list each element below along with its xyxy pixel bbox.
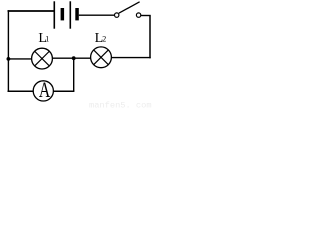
svg-text:manfen5. com: manfen5. com bbox=[89, 100, 152, 110]
switch S1 lever (open) bbox=[119, 2, 140, 13]
wire riser up to middle junction bbox=[73, 58, 75, 91]
ammeter A1 bbox=[33, 78, 53, 102]
battery BT1 short thick plate left bbox=[61, 8, 65, 20]
switch S1 right terminal bbox=[136, 13, 140, 17]
switch S1 left terminal bbox=[115, 13, 119, 17]
battery BT1 long plate right bbox=[69, 1, 71, 28]
label L2 bbox=[95, 31, 107, 46]
wire top-left horizontal bbox=[8, 10, 55, 12]
node junction left (dot) bbox=[6, 57, 10, 61]
wire left vertical bbox=[7, 10, 9, 92]
node junction middle (dot) bbox=[72, 56, 76, 60]
svg-text:1: 1 bbox=[45, 35, 49, 44]
lamp L1 bbox=[32, 48, 53, 69]
wire bottom-left to ammeter bbox=[8, 90, 34, 92]
wire left vertical to L1 bbox=[8, 58, 32, 60]
lamp L2 bbox=[91, 47, 112, 68]
wire ammeter to riser bbox=[53, 90, 74, 92]
wire switch to top-right corner bbox=[141, 15, 151, 17]
wire between L1 and L2 bbox=[52, 57, 90, 59]
label L1 bbox=[38, 31, 49, 46]
wire L2 to right corner bbox=[112, 57, 151, 59]
battery BT1 short thick plate right bbox=[75, 8, 79, 20]
wire battery to switch bbox=[79, 14, 115, 16]
svg-text:A: A bbox=[39, 78, 50, 102]
battery BT1 long plate left bbox=[53, 1, 55, 28]
wire right vertical bbox=[149, 16, 151, 59]
svg-text:2: 2 bbox=[102, 35, 106, 44]
